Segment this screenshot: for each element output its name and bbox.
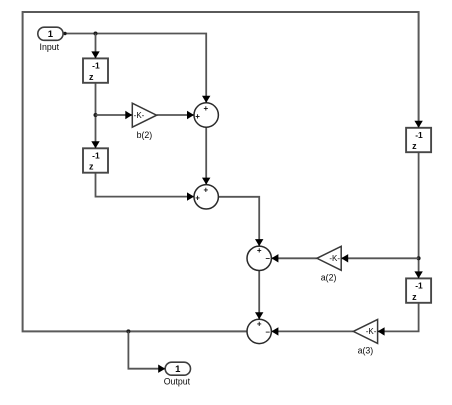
wire feedback loop: sum4 output left/up/top/right down to delay R1 xyxy=(23,12,419,331)
arrow into delay R1 xyxy=(414,121,422,128)
wire junction to b(2) gain input xyxy=(96,114,133,116)
arrow into sum2 top xyxy=(202,178,210,185)
arrow into sum1 left xyxy=(187,111,194,119)
gain a(3) xyxy=(353,319,377,355)
wire input run from Input port to sum1 top xyxy=(63,34,206,103)
node output branch junction xyxy=(126,329,130,333)
delay block R1 z^-1 xyxy=(406,128,431,152)
svg-text:+: + xyxy=(257,246,262,255)
svg-text:1: 1 xyxy=(48,29,54,40)
svg-text:+: + xyxy=(257,319,262,328)
wire delay L2 bottom to sum2 left xyxy=(96,173,195,197)
wire junction to a(2) gain input xyxy=(341,257,418,259)
gain b(2) xyxy=(132,103,156,140)
sum S2 xyxy=(194,185,218,209)
svg-text:–: – xyxy=(265,254,270,263)
node input port nub xyxy=(63,32,66,35)
arrow into Output port xyxy=(158,365,165,373)
node b(2) branch junction xyxy=(94,113,98,117)
gain a(2) xyxy=(317,246,341,282)
arrow into gain b(2) xyxy=(125,111,132,119)
svg-text:+: + xyxy=(195,112,200,121)
sum S4 xyxy=(247,319,271,343)
arrow into gain a(2) xyxy=(341,254,348,262)
svg-text:+: + xyxy=(203,104,208,113)
arrow into gain a(3) xyxy=(378,327,385,335)
arrow into delay L2 xyxy=(91,141,99,148)
wire sum2 right to sum3 top xyxy=(218,197,259,246)
arrow into sum2 left xyxy=(187,192,194,200)
svg-text:a(3): a(3) xyxy=(358,346,374,356)
svg-text:+: + xyxy=(203,186,208,195)
svg-text:z: z xyxy=(89,162,94,172)
svg-text:a(2): a(2) xyxy=(321,272,337,282)
arrow into delay R2 xyxy=(414,271,422,278)
wire delay L1 bottom to delay L2 top xyxy=(95,83,97,149)
svg-text:-1: -1 xyxy=(92,61,100,71)
node a(2) branch junction xyxy=(417,256,421,260)
arrow into sum1 top xyxy=(202,96,210,103)
svg-text:Input: Input xyxy=(40,42,60,52)
arrow into sum4 right xyxy=(271,327,278,335)
wire output branch down and right to Output port xyxy=(128,331,165,368)
svg-text:-K-: -K- xyxy=(366,327,377,336)
sum S1 xyxy=(194,103,218,127)
wire delay R2 bottom to a(3) gain input xyxy=(378,303,419,332)
svg-text:+: + xyxy=(195,194,200,203)
wire a(2) output to sum3 right xyxy=(271,257,317,259)
svg-text:-K-: -K- xyxy=(134,111,145,120)
svg-text:–: – xyxy=(265,327,270,336)
wire sum3 bottom to sum4 top xyxy=(258,271,260,320)
wire b(2) output to sum1 left xyxy=(157,114,194,116)
svg-text:z: z xyxy=(89,72,94,82)
svg-text:-1: -1 xyxy=(415,281,423,291)
delay block L2 z^-1 xyxy=(83,148,108,172)
svg-text:1: 1 xyxy=(175,364,181,375)
node input branch junction xyxy=(94,32,98,36)
input port Input (1) xyxy=(38,27,63,52)
arrow into sum4 top xyxy=(255,312,263,319)
svg-text:b(2): b(2) xyxy=(137,130,153,140)
wire input junction down to delay L1 xyxy=(95,34,97,59)
svg-text:z: z xyxy=(412,141,417,151)
arrow into sum3 top xyxy=(255,239,263,246)
sum S3 xyxy=(247,246,271,270)
svg-text:Output: Output xyxy=(164,377,191,387)
wire delay R1 bottom down through a(2) junction to delay R2 top xyxy=(418,152,420,278)
wire sum1 bottom to sum2 top xyxy=(205,127,207,184)
svg-text:-1: -1 xyxy=(92,150,100,160)
wire a(3) output to sum4 right xyxy=(271,330,353,332)
arrow into delay L1 xyxy=(91,51,99,58)
delay block L1 z^-1 xyxy=(83,58,108,82)
svg-text:z: z xyxy=(412,292,417,302)
svg-text:-1: -1 xyxy=(415,130,423,140)
arrow into sum3 right xyxy=(271,254,278,262)
delay block R2 z^-1 xyxy=(406,278,431,302)
output port Output (1) xyxy=(164,362,191,386)
svg-text:-K-: -K- xyxy=(329,254,340,263)
